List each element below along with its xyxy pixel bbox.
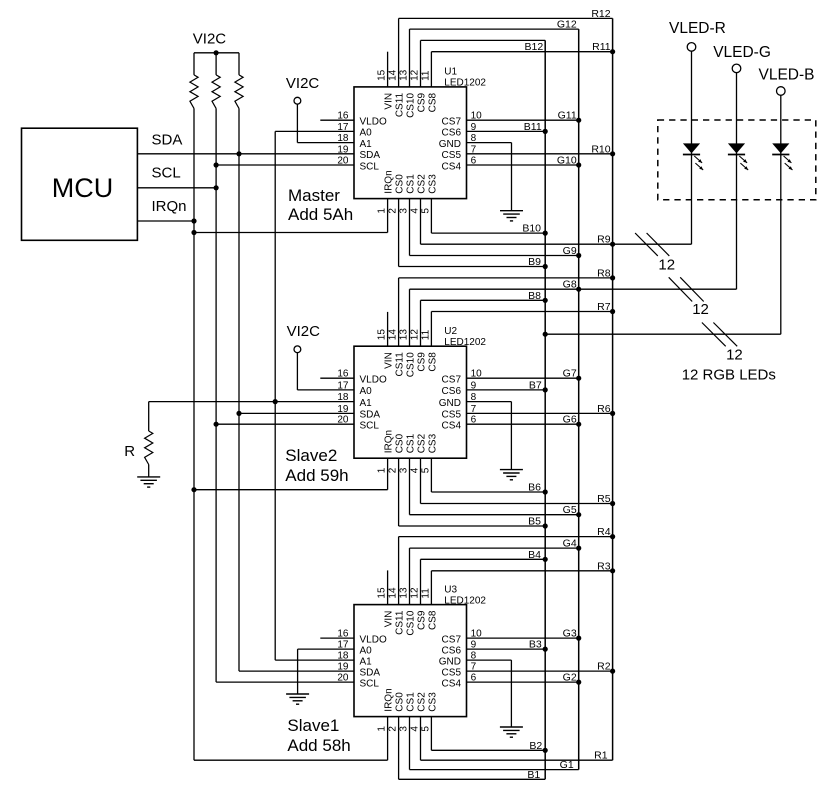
svg-text:CS0: CS0 (395, 692, 406, 712)
svg-text:R2: R2 (597, 661, 611, 673)
svg-text:G8: G8 (563, 279, 577, 291)
svg-text:B8: B8 (528, 290, 541, 302)
svg-text:12: 12 (410, 329, 421, 341)
svg-text:U1: U1 (444, 67, 457, 78)
svg-text:CS0: CS0 (395, 433, 406, 453)
svg-text:4: 4 (410, 467, 421, 473)
svg-text:CS3: CS3 (427, 174, 438, 194)
svg-text:GND: GND (439, 139, 461, 150)
svg-text:LED1202: LED1202 (444, 595, 486, 606)
svg-text:3: 3 (399, 467, 410, 473)
svg-text:6: 6 (471, 156, 477, 167)
svg-text:IRQn: IRQn (384, 430, 395, 453)
svg-text:R5: R5 (597, 493, 611, 505)
svg-text:VIN: VIN (384, 93, 395, 110)
svg-text:SCL: SCL (360, 161, 380, 172)
svg-text:B5: B5 (528, 516, 541, 528)
svg-text:CS0: CS0 (395, 174, 406, 194)
svg-text:CS5: CS5 (442, 667, 462, 678)
svg-text:9: 9 (471, 380, 477, 391)
svg-text:VLDO: VLDO (360, 117, 387, 128)
svg-text:12: 12 (410, 587, 421, 599)
svg-text:G2: G2 (563, 672, 577, 684)
svg-text:CS8: CS8 (427, 92, 438, 112)
svg-text:10: 10 (471, 629, 483, 640)
svg-text:1: 1 (377, 467, 388, 473)
svg-text:12: 12 (658, 256, 675, 273)
svg-text:12 RGB LEDs: 12 RGB LEDs (682, 367, 776, 384)
svg-text:5: 5 (420, 467, 431, 473)
svg-text:CS4: CS4 (442, 421, 462, 432)
svg-text:A0: A0 (360, 128, 373, 139)
svg-text:B3: B3 (529, 639, 542, 651)
svg-text:IRQn: IRQn (152, 198, 187, 215)
svg-text:R8: R8 (597, 267, 611, 279)
svg-text:B6: B6 (528, 482, 541, 494)
svg-text:A0: A0 (360, 386, 373, 397)
svg-text:1: 1 (377, 208, 388, 214)
svg-text:16: 16 (337, 369, 349, 380)
svg-text:R7: R7 (597, 301, 611, 313)
svg-text:12: 12 (726, 346, 743, 363)
svg-text:CS8: CS8 (427, 352, 438, 372)
svg-text:14: 14 (388, 69, 399, 81)
svg-text:15: 15 (377, 329, 388, 341)
svg-text:VLED-R: VLED-R (669, 20, 726, 37)
svg-text:17: 17 (337, 122, 349, 133)
svg-text:G11: G11 (558, 110, 577, 122)
svg-text:2: 2 (388, 467, 399, 473)
svg-text:SDA: SDA (152, 131, 183, 148)
svg-text:20: 20 (337, 673, 349, 684)
svg-text:14: 14 (388, 587, 399, 599)
svg-text:8: 8 (471, 651, 477, 662)
svg-text:Master: Master (288, 186, 340, 205)
svg-text:16: 16 (337, 629, 349, 640)
svg-text:CS8: CS8 (427, 610, 438, 630)
svg-text:CS3: CS3 (427, 433, 438, 453)
svg-text:B2: B2 (529, 740, 542, 752)
svg-text:15: 15 (377, 69, 388, 81)
svg-text:CS9: CS9 (417, 92, 428, 112)
svg-text:IRQn: IRQn (384, 170, 395, 193)
svg-text:VLDO: VLDO (360, 375, 387, 386)
svg-text:CS11: CS11 (395, 352, 406, 377)
svg-text:G7: G7 (563, 368, 577, 380)
svg-text:CS1: CS1 (406, 692, 417, 712)
svg-text:LED1202: LED1202 (444, 78, 486, 89)
svg-text:14: 14 (388, 329, 399, 341)
svg-text:MCU: MCU (52, 173, 114, 203)
svg-text:13: 13 (399, 587, 410, 599)
svg-text:B9: B9 (528, 256, 541, 268)
svg-text:CS9: CS9 (417, 352, 428, 372)
svg-text:CS6: CS6 (442, 645, 462, 656)
svg-text:2: 2 (388, 726, 399, 732)
svg-text:7: 7 (471, 662, 477, 673)
svg-text:SCL: SCL (360, 678, 380, 689)
svg-text:12: 12 (692, 301, 709, 318)
svg-text:CS2: CS2 (417, 433, 428, 453)
svg-text:7: 7 (471, 144, 477, 155)
svg-text:R11: R11 (592, 41, 611, 53)
svg-text:CS10: CS10 (406, 610, 417, 635)
svg-text:19: 19 (337, 662, 349, 673)
svg-text:VLED-G: VLED-G (713, 44, 771, 61)
svg-text:20: 20 (337, 415, 349, 426)
svg-text:G12: G12 (557, 19, 577, 31)
svg-text:2: 2 (388, 208, 399, 214)
svg-text:18: 18 (337, 133, 349, 144)
svg-text:R9: R9 (597, 234, 611, 246)
svg-text:CS10: CS10 (406, 352, 417, 377)
svg-text:10: 10 (471, 369, 483, 380)
svg-text:8: 8 (471, 133, 477, 144)
svg-text:R6: R6 (597, 403, 611, 415)
svg-text:U3: U3 (444, 584, 457, 595)
svg-text:SCL: SCL (360, 421, 380, 432)
svg-text:R12: R12 (591, 8, 610, 20)
svg-text:CS2: CS2 (417, 692, 428, 712)
svg-text:CS1: CS1 (406, 433, 417, 453)
svg-text:16: 16 (337, 111, 349, 122)
svg-text:SDA: SDA (360, 150, 381, 161)
svg-text:VI2C: VI2C (287, 323, 321, 340)
svg-text:6: 6 (471, 415, 477, 426)
svg-text:VIN: VIN (384, 611, 395, 628)
svg-text:20: 20 (337, 156, 349, 167)
svg-text:G10: G10 (557, 155, 577, 167)
svg-text:18: 18 (337, 651, 349, 662)
svg-text:G5: G5 (563, 504, 577, 516)
svg-text:B11: B11 (524, 121, 542, 133)
svg-text:A0: A0 (360, 645, 373, 656)
svg-text:CS6: CS6 (442, 128, 462, 139)
svg-text:11: 11 (420, 329, 431, 340)
svg-text:B1: B1 (527, 769, 540, 781)
svg-text:Add 58h: Add 58h (287, 736, 350, 755)
svg-text:B10: B10 (522, 223, 541, 235)
svg-text:B4: B4 (528, 549, 541, 561)
svg-text:9: 9 (471, 122, 477, 133)
svg-text:CS1: CS1 (406, 174, 417, 194)
svg-text:R10: R10 (591, 143, 610, 155)
svg-text:A1: A1 (360, 656, 373, 667)
svg-text:3: 3 (399, 726, 410, 732)
svg-text:B12: B12 (525, 41, 544, 53)
svg-text:17: 17 (337, 380, 349, 391)
svg-text:IRQn: IRQn (384, 688, 395, 711)
svg-text:12: 12 (410, 69, 421, 81)
svg-text:U2: U2 (444, 326, 457, 337)
svg-text:19: 19 (337, 404, 349, 415)
svg-text:GND: GND (439, 656, 461, 667)
svg-text:SDA: SDA (360, 410, 381, 421)
svg-text:A1: A1 (360, 139, 373, 150)
svg-text:Add 5Ah: Add 5Ah (288, 205, 353, 224)
svg-text:4: 4 (410, 726, 421, 732)
svg-text:B7: B7 (529, 379, 542, 391)
svg-text:CS4: CS4 (442, 161, 462, 172)
svg-text:VLED-B: VLED-B (759, 66, 815, 83)
svg-text:7: 7 (471, 404, 477, 415)
svg-text:11: 11 (420, 588, 431, 599)
svg-text:CS5: CS5 (442, 150, 462, 161)
svg-text:CS7: CS7 (442, 634, 462, 645)
svg-text:5: 5 (420, 726, 431, 732)
svg-text:5: 5 (420, 208, 431, 214)
svg-text:G4: G4 (563, 538, 577, 550)
svg-text:10: 10 (471, 111, 483, 122)
svg-text:18: 18 (337, 392, 349, 403)
svg-text:CS9: CS9 (417, 610, 428, 630)
svg-text:Add 59h: Add 59h (285, 466, 348, 485)
svg-text:CS7: CS7 (442, 375, 462, 386)
svg-text:G1: G1 (560, 759, 574, 771)
svg-text:LED1202: LED1202 (444, 337, 486, 348)
svg-text:CS3: CS3 (427, 692, 438, 712)
svg-text:CS5: CS5 (442, 410, 462, 421)
svg-text:VLDO: VLDO (360, 634, 387, 645)
svg-text:4: 4 (410, 208, 421, 214)
svg-text:GND: GND (439, 398, 461, 409)
svg-text:R: R (124, 443, 135, 460)
svg-text:CS6: CS6 (442, 386, 462, 397)
svg-text:13: 13 (399, 69, 410, 81)
svg-text:CS11: CS11 (395, 92, 406, 117)
svg-text:17: 17 (337, 640, 349, 651)
svg-text:1: 1 (377, 726, 388, 732)
svg-text:15: 15 (377, 587, 388, 599)
svg-text:13: 13 (399, 329, 410, 341)
svg-text:CS2: CS2 (417, 174, 428, 194)
svg-text:9: 9 (471, 640, 477, 651)
svg-text:VI2C: VI2C (286, 75, 320, 92)
svg-text:R3: R3 (597, 560, 611, 572)
svg-text:G3: G3 (563, 628, 577, 640)
svg-text:G9: G9 (563, 245, 577, 257)
svg-text:CS11: CS11 (395, 610, 406, 635)
svg-text:3: 3 (399, 208, 410, 214)
svg-text:SCL: SCL (152, 165, 181, 182)
svg-text:R4: R4 (597, 526, 611, 538)
svg-text:6: 6 (471, 673, 477, 684)
svg-text:VI2C: VI2C (193, 31, 227, 48)
svg-text:SDA: SDA (360, 667, 381, 678)
svg-text:19: 19 (337, 144, 349, 155)
svg-text:CS10: CS10 (406, 92, 417, 117)
svg-text:R1: R1 (594, 750, 608, 762)
svg-text:Slave2: Slave2 (285, 446, 337, 465)
svg-text:G6: G6 (563, 414, 577, 426)
svg-text:CS4: CS4 (442, 678, 462, 689)
svg-text:Slave1: Slave1 (287, 716, 339, 735)
svg-text:VIN: VIN (384, 352, 395, 369)
svg-text:CS7: CS7 (442, 117, 462, 128)
svg-text:11: 11 (420, 70, 431, 81)
svg-text:A1: A1 (360, 398, 373, 409)
svg-text:8: 8 (471, 392, 477, 403)
